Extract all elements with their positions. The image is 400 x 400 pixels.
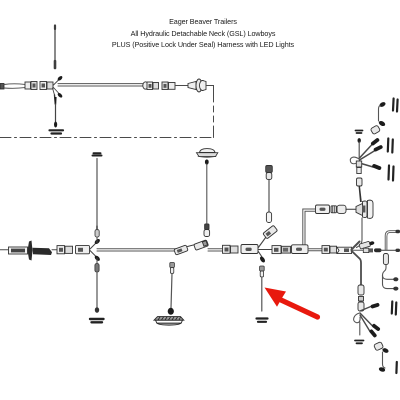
- connector pair H: [223, 245, 239, 253]
- junction of middle harness: [90, 238, 101, 262]
- wire left lead: [0, 249, 9, 251]
- 7-way plug left: [9, 241, 53, 261]
- connector bullet end of drop: [204, 224, 210, 237]
- wire bottom row: [308, 249, 322, 251]
- wire vertical below junction: [90, 258, 104, 322]
- lamp bars bottom right: [392, 302, 397, 315]
- title text: [3, 16, 400, 51]
- junction right of connector I: [258, 225, 278, 263]
- red arrow: [265, 288, 318, 318]
- boundary dash-dot line: [0, 137, 214, 139]
- marker light body: [154, 317, 184, 326]
- connector pair J: [272, 246, 291, 254]
- wire drop from dome light: [205, 159, 209, 224]
- wire to dashed corner: [206, 86, 214, 138]
- wire link right of slanted pair: [208, 249, 223, 251]
- single lamp bar far bottom: [395, 362, 398, 373]
- jumper Z bottom: [374, 342, 390, 373]
- terminal top right: [396, 230, 400, 233]
- wire ground drop below junction: [50, 95, 64, 134]
- junction fan right: [352, 241, 382, 285]
- wire from plug M down to lower junction: [357, 218, 363, 248]
- wire short link: [175, 85, 188, 87]
- dome light: [197, 149, 218, 158]
- connector above plug M: [357, 178, 363, 202]
- wire elbow top right: [385, 231, 397, 250]
- socket bell: [196, 79, 206, 92]
- wire vertical above junction: [93, 153, 102, 243]
- jumper Z top: [370, 101, 386, 134]
- wire elbow from top row to bottom row: [303, 209, 316, 246]
- cone connector: [188, 82, 196, 90]
- branch cluster mid: [350, 137, 383, 173]
- wire cross at y=250: [381, 249, 400, 252]
- wire of jumper: [268, 180, 270, 213]
- connector top of jumper: [266, 166, 273, 180]
- plug assembly L: [331, 205, 356, 213]
- terminal lower right: [393, 287, 398, 291]
- 7-way plug pair M: [356, 200, 373, 218]
- connector pair D: [162, 82, 175, 90]
- connector K with dot: [316, 205, 330, 214]
- connector pair B: [40, 82, 53, 90]
- junction with branch bullets: [53, 75, 64, 98]
- connector pair C: [143, 82, 159, 90]
- wire drop below junction (arrow target): [257, 266, 268, 322]
- connector pair N: [322, 246, 337, 254]
- connector pair A: [25, 82, 37, 90]
- connector stack on lower drop: [358, 285, 364, 311]
- connector bottom of jumper: [266, 212, 271, 223]
- connector with dot at elbow foot: [292, 245, 309, 254]
- wire link: [52, 249, 57, 251]
- small cap: [356, 131, 363, 134]
- terminal mid right: [393, 277, 398, 281]
- slanted connector pair G: [174, 240, 209, 255]
- wire main run of middle harness: [97, 249, 177, 251]
- lamp bars second: [388, 139, 393, 153]
- connector I with dot: [241, 245, 258, 254]
- wire vertical stub above junction: [54, 26, 56, 69]
- lamp bars third: [389, 166, 394, 181]
- connector pair E: [57, 246, 73, 254]
- connector left plug: [0, 84, 25, 90]
- connector on spine: [383, 254, 388, 265]
- wire main run of top harness: [58, 84, 143, 86]
- wire S-curve with right terminals: [383, 265, 395, 289]
- junction box right: [337, 247, 352, 253]
- connector F: [76, 246, 90, 254]
- lower junction cluster with bullets: [354, 302, 381, 343]
- wire drop with bulb: [168, 263, 175, 315]
- lamp bars top: [393, 99, 398, 112]
